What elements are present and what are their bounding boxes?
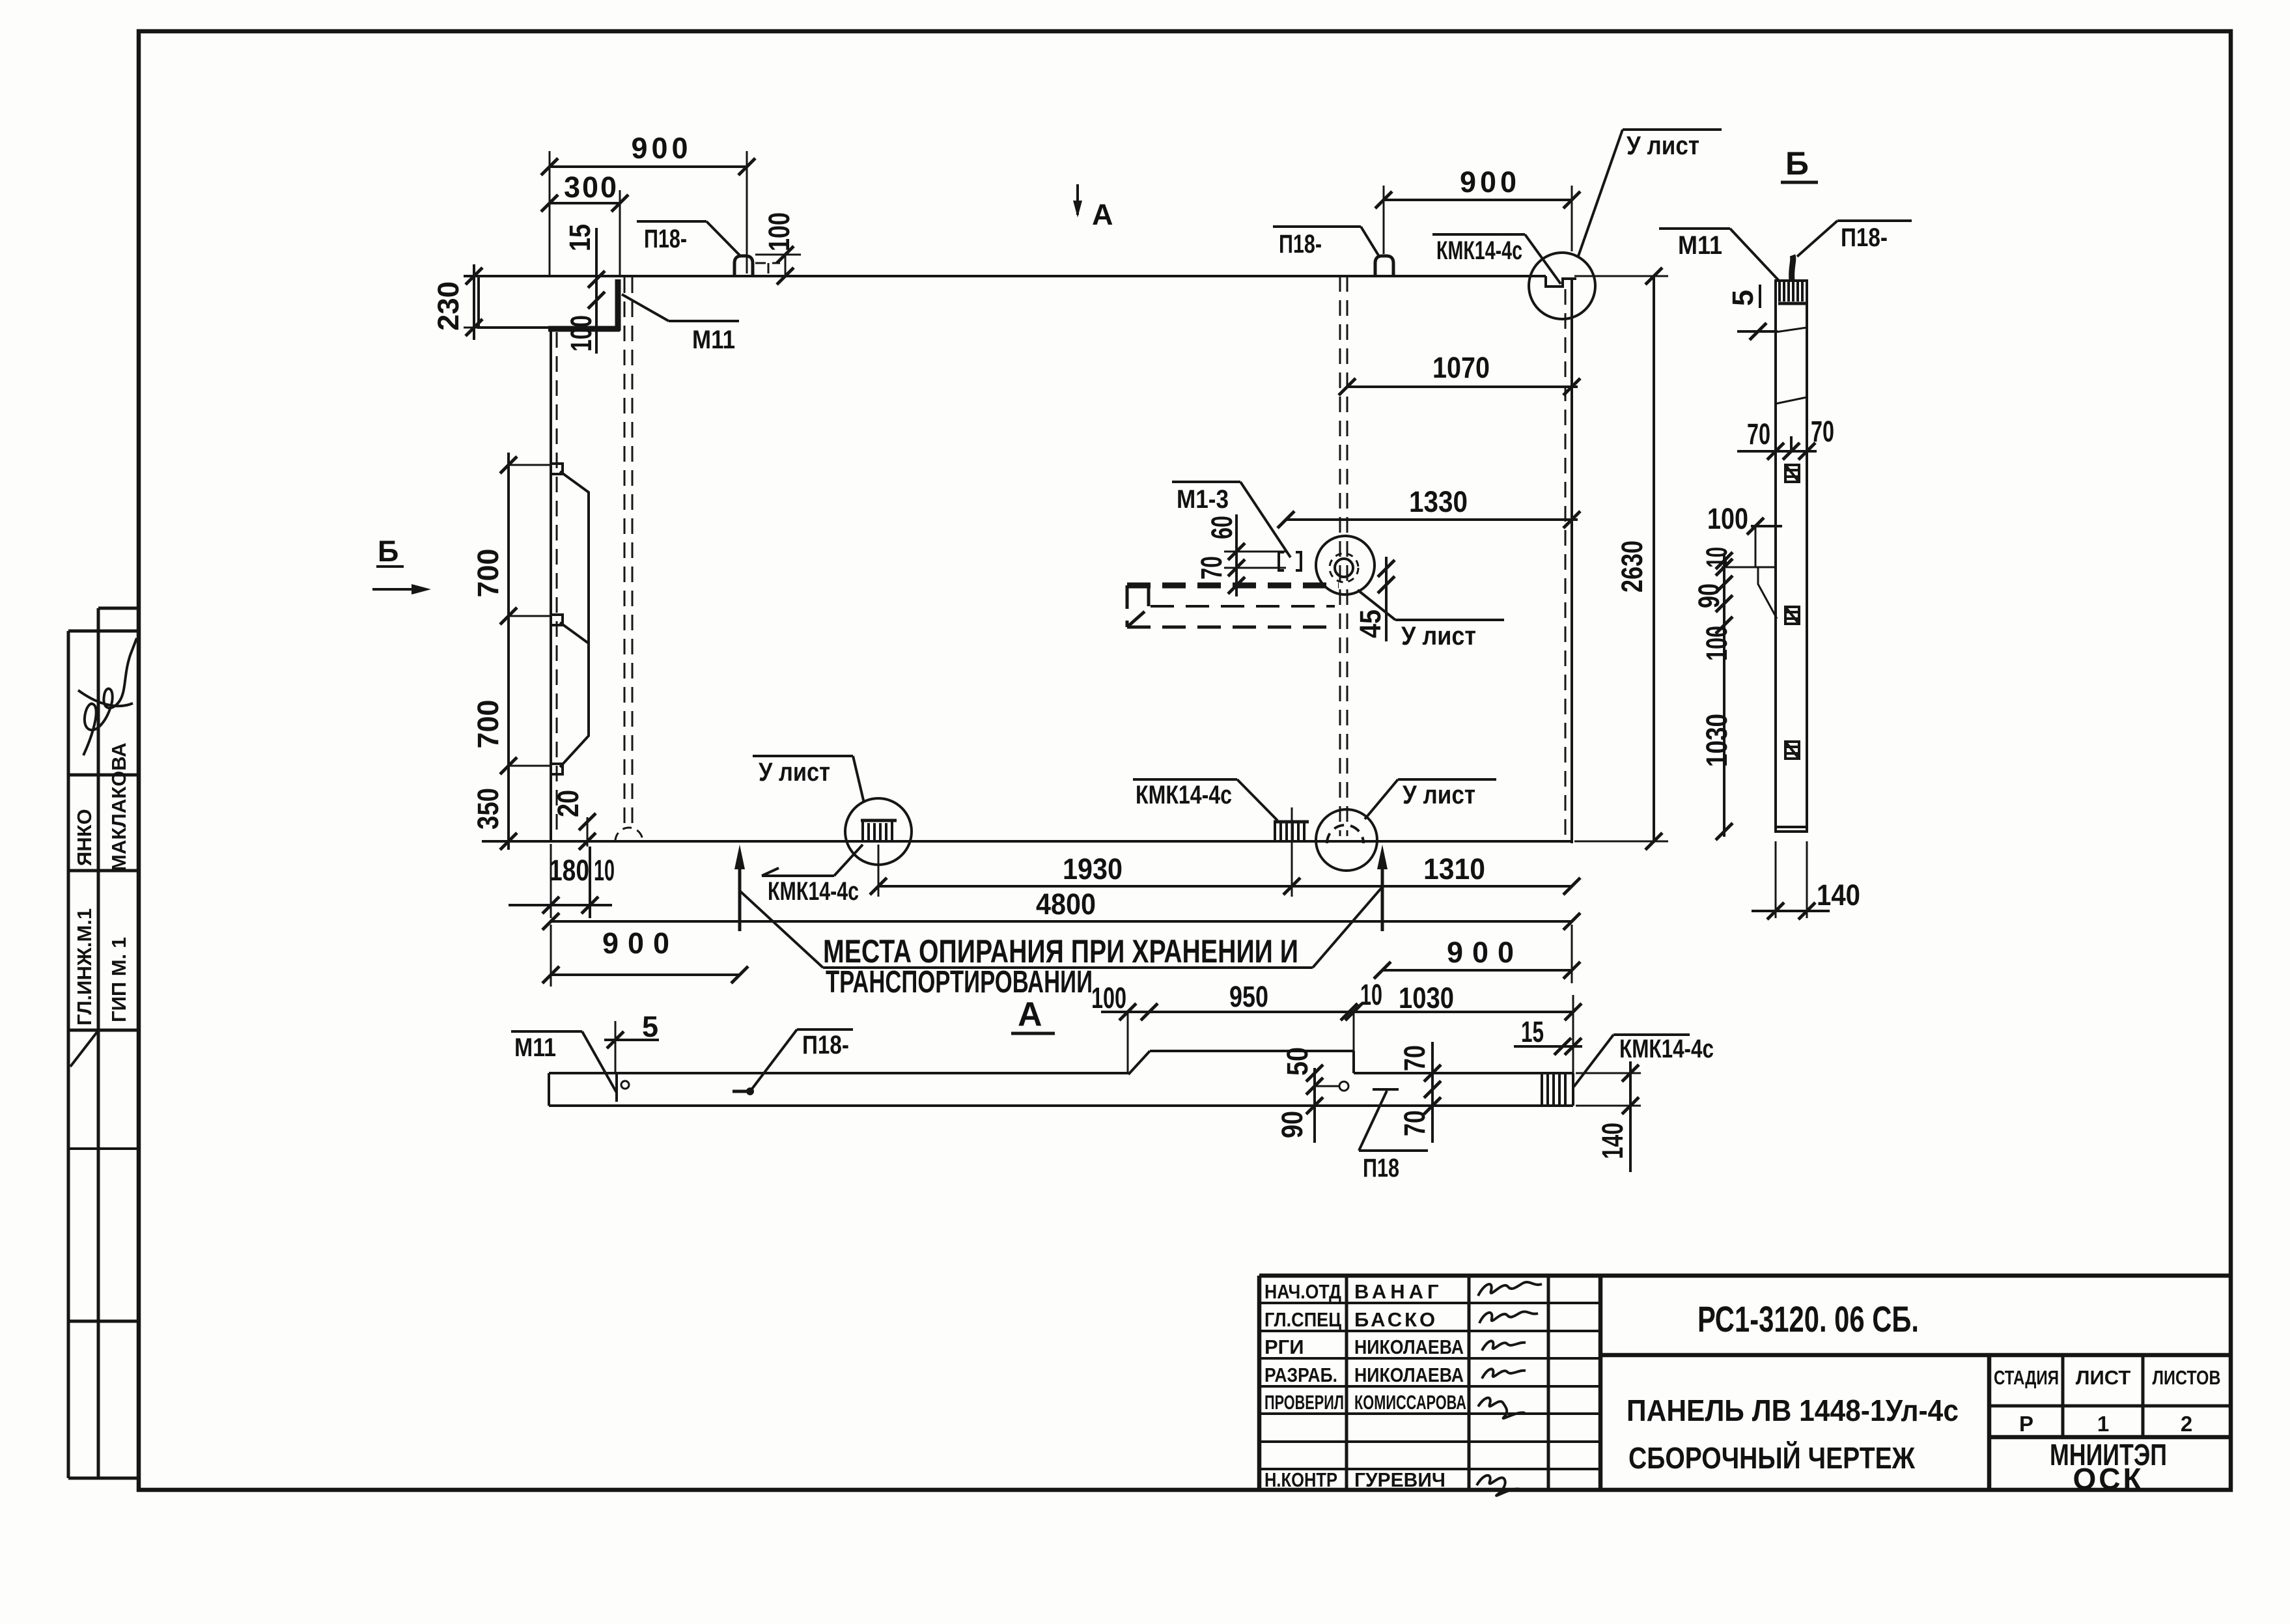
svg-text:КМК14-4с: КМК14-4с: [1436, 236, 1522, 265]
dimension 230: [432, 264, 482, 340]
svg-text:1030: 1030: [1399, 981, 1454, 1015]
svg-text:45: 45: [1354, 609, 1387, 638]
callout У лист mid: [1358, 590, 1504, 651]
svg-text:4800: 4800: [1036, 888, 1096, 921]
section Б callout М11: [1659, 229, 1780, 281]
svg-text:15: 15: [563, 224, 596, 251]
svg-text:10: 10: [1360, 978, 1382, 1011]
central vertical hidden pair lower: [1339, 276, 1341, 836]
section Б rebar mark 3: [1785, 742, 1799, 759]
svg-text:М1-3: М1-3: [1177, 485, 1229, 514]
svg-text:100: 100: [1700, 626, 1733, 661]
svg-text:ОСК: ОСК: [2073, 1462, 2143, 1496]
dimension 300: [541, 171, 628, 276]
svg-text:ГИП М. 1: ГИП М. 1: [107, 937, 130, 1022]
callout П18- top-left: [637, 221, 740, 256]
callout М11 top-left: [622, 294, 739, 354]
top right detail circle: [1529, 253, 1595, 319]
svg-text:М11: М11: [514, 1033, 556, 1062]
svg-text:ВАНАГ: ВАНАГ: [1354, 1280, 1443, 1303]
КМК hatched plate in bottom-left circle: [861, 820, 897, 841]
svg-text:90: 90: [1692, 583, 1725, 608]
section A dimension 140: [1576, 1061, 1641, 1172]
svg-text:900: 900: [602, 927, 678, 960]
detail circle М1-3: [1316, 536, 1375, 595]
top-left protrusion: [479, 276, 550, 328]
section Б joint lines: [1776, 328, 1807, 332]
svg-text:1030: 1030: [1700, 714, 1733, 767]
loop hidden dashes: [755, 262, 780, 264]
svg-text:М11: М11: [1678, 231, 1722, 260]
svg-text:КМК14-4с: КМК14-4с: [768, 877, 859, 906]
label Б top-right: [1781, 145, 1818, 182]
М11 plate thick edge: [615, 279, 621, 331]
svg-text:ПРОВЕРИЛ: ПРОВЕРИЛ: [1264, 1391, 1344, 1414]
svg-text:П18-: П18-: [1841, 223, 1888, 252]
svg-text:900: 900: [631, 132, 691, 165]
svg-text:МАКЛАКОВА: МАКЛАКОВА: [107, 742, 130, 871]
section Б chain line: [1692, 547, 1776, 840]
section Б dimension 70 70: [1737, 415, 1834, 460]
svg-text:1070: 1070: [1432, 351, 1490, 384]
dimension 70 mid: [1195, 556, 1245, 594]
dimension 180 10: [509, 844, 615, 918]
svg-text:900: 900: [1460, 165, 1520, 199]
svg-text:У лист: У лист: [1401, 622, 1476, 651]
svg-text:ГУРЕВИЧ: ГУРЕВИЧ: [1354, 1468, 1445, 1491]
title block signatures: [1477, 1282, 1542, 1496]
svg-text:5: 5: [642, 1010, 658, 1043]
section A dimension 70 70: [1398, 1042, 1441, 1143]
svg-text:950: 950: [1229, 980, 1268, 1013]
svg-text:У лист: У лист: [759, 758, 830, 787]
svg-text:ГЛ.СПЕЦ: ГЛ.СПЕЦ: [1264, 1308, 1341, 1331]
svg-text:10: 10: [594, 854, 615, 887]
svg-text:100: 100: [762, 212, 796, 251]
title block left grid: [1259, 1276, 1600, 1490]
callout М1-3: [1172, 482, 1291, 557]
callout П18- top-center: [1273, 227, 1378, 259]
dimension 1330: [1278, 485, 1580, 528]
svg-text:КМК14-4с: КМК14-4с: [1619, 1035, 1714, 1063]
section title А bottom: [1011, 996, 1055, 1033]
section Б rebar mark 1: [1785, 465, 1799, 482]
central hidden double line: [624, 277, 626, 826]
svg-text:П18: П18: [1363, 1154, 1399, 1183]
svg-text:230: 230: [432, 281, 465, 331]
svg-text:РАЗРАБ.: РАЗРАБ.: [1264, 1364, 1337, 1386]
КМК hatched plate mid-bottom: [1274, 822, 1309, 841]
note МЕСТА ОПИРАНИЯ leader right: [1313, 887, 1382, 968]
svg-text:П18-: П18-: [644, 225, 687, 253]
svg-text:НИКОЛАЕВА: НИКОЛАЕВА: [1354, 1364, 1464, 1386]
svg-text:ГЛ.ИНЖ.М.1: ГЛ.ИНЖ.М.1: [73, 908, 96, 1026]
support arrow right: [1377, 845, 1388, 931]
section A П18 target dash: [1373, 1088, 1399, 1091]
U loop dashed semicircle bottom-right: [1327, 825, 1363, 843]
svg-text:700: 700: [471, 548, 505, 597]
section Б dimension 100 upper: [1707, 502, 1782, 567]
svg-text:У лист: У лист: [1627, 132, 1699, 160]
svg-text:900: 900: [1447, 936, 1523, 969]
svg-text:90: 90: [1276, 1111, 1309, 1138]
hole in detail: [1335, 559, 1353, 577]
bottom-left U loop (dashed semicircle): [615, 828, 643, 841]
section Б column outline: [1776, 281, 1807, 832]
section A dimension 5: [604, 1010, 659, 1073]
svg-text:2: 2: [2181, 1412, 2192, 1436]
section A callout КМК14-4с: [1574, 1035, 1714, 1087]
title block names: [1354, 1280, 1466, 1491]
svg-text:Р: Р: [2019, 1412, 2033, 1436]
svg-text:П18-: П18-: [1279, 230, 1322, 259]
section A callout П18: [1359, 1091, 1428, 1183]
svg-text:П18-: П18-: [802, 1031, 849, 1059]
section A right hatched plate КМК: [1542, 1074, 1565, 1106]
svg-text:1: 1: [2097, 1412, 2109, 1436]
dimension 1930 1310: [870, 807, 1580, 897]
dimension 1070: [1339, 351, 1580, 395]
left margin stamp table: [68, 608, 139, 1478]
section Б chamfer detail: [1758, 567, 1777, 619]
svg-text:100: 100: [1707, 502, 1748, 535]
svg-text:ЛИСТ: ЛИСТ: [2076, 1366, 2131, 1389]
callout КМК14-4с mid-bottom: [1133, 779, 1278, 820]
svg-text:Б: Б: [378, 535, 398, 568]
section mark А top: [1073, 184, 1113, 231]
svg-text:140: 140: [1817, 878, 1860, 912]
svg-text:300: 300: [564, 171, 619, 204]
title block outer: [1259, 1276, 2231, 1490]
lifting loop П18 top-left: [734, 256, 753, 276]
svg-text:НАЧ.ОТД: НАЧ.ОТД: [1264, 1280, 1341, 1303]
svg-text:140: 140: [1596, 1123, 1629, 1159]
svg-text:60: 60: [1205, 516, 1238, 539]
svg-text:700: 700: [471, 699, 505, 748]
svg-text:70: 70: [1811, 415, 1834, 448]
note underline: [823, 966, 1313, 969]
dimension 2630: [1574, 268, 1668, 850]
section mark Б left: [372, 535, 431, 595]
svg-text:М11: М11: [692, 326, 735, 354]
svg-text:100: 100: [1091, 981, 1126, 1015]
section A М11 plate left: [617, 1073, 629, 1102]
protrusion plate thick edge: [548, 326, 620, 332]
svg-text:БАСКО: БАСКО: [1354, 1308, 1438, 1331]
section Б dimension 140: [1752, 841, 1860, 919]
callout У лист bottom-right: [1365, 779, 1496, 819]
left anchor rod polyline: [560, 471, 589, 767]
svg-text:СТАДИЯ: СТАДИЯ: [1994, 1366, 2059, 1389]
М1-3 plate: [1279, 552, 1301, 570]
svg-text:70: 70: [1747, 417, 1770, 451]
panel right hidden line: [1565, 289, 1567, 837]
panel top edge: [464, 275, 1546, 277]
svg-text:15: 15: [1521, 1015, 1544, 1048]
svg-text:Б: Б: [1785, 145, 1809, 182]
section Б dimension 5: [1726, 285, 1778, 340]
svg-text:У лист: У лист: [1403, 781, 1475, 809]
title СТАДИЯ ЛИСТ ЛИСТОВ: [1994, 1366, 2221, 1436]
svg-text:СБОРОЧНЫЙ ЧЕРТЕЖ: СБОРОЧНЫЙ ЧЕРТЕЖ: [1628, 1441, 1915, 1475]
section Б top hatch КМК plate: [1778, 281, 1806, 303]
svg-text:А: А: [1092, 198, 1113, 231]
dashed channel bar (hidden): [1127, 585, 1339, 627]
dimension 100 left: [565, 315, 598, 352]
svg-text:Н.КОНТР: Н.КОНТР: [1264, 1468, 1337, 1491]
svg-text:ЯНКО: ЯНКО: [73, 809, 96, 866]
section A callout П18-: [733, 1029, 853, 1095]
bottom left detail circle: [845, 798, 912, 865]
note МЕСТА ОПИРАНИЯ leader left: [740, 891, 823, 968]
svg-text:КОМИССАРОВА: КОМИССАРОВА: [1354, 1391, 1466, 1414]
svg-text:РГИ: РГИ: [1264, 1336, 1304, 1358]
title block row labels: [1264, 1280, 1344, 1491]
callout КМК14-4с bottom-left: [762, 845, 863, 906]
svg-text:ПАНЕЛЬ ЛВ 1448-1Ул-4с: ПАНЕЛЬ ЛВ 1448-1Ул-4с: [1627, 1393, 1959, 1427]
svg-text:100: 100: [565, 315, 598, 352]
dimension 60: [1205, 514, 1286, 596]
section Б М11 pigtail: [1792, 255, 1793, 281]
dimension 900 top-right: [1375, 165, 1580, 254]
svg-text:5: 5: [1726, 290, 1759, 306]
support arrow left: [734, 845, 745, 931]
section A dimension 15: [1514, 1015, 1582, 1055]
svg-text:180: 180: [549, 854, 589, 887]
dimension 15 top-left: [563, 224, 605, 354]
section A dimension row 100 950 10 1030: [1091, 978, 1582, 1073]
svg-text:ТРАНСПОРТИРОВАНИИ: ТРАНСПОРТИРОВАНИИ: [826, 965, 1093, 1000]
svg-text:10: 10: [1700, 547, 1733, 568]
svg-text:70: 70: [1398, 1045, 1431, 1071]
dimension 100 at loop: [755, 212, 801, 285]
callout У лист bottom-left: [753, 756, 864, 803]
dimension 45: [1354, 557, 1395, 641]
svg-text:МЕСТА ОПИРАНИЯ ПРИ ХРАНЕНИИ: МЕСТА ОПИРАНИЯ ПРИ ХРАНЕНИИ И: [823, 933, 1298, 970]
svg-text:1930: 1930: [1063, 852, 1123, 886]
section A strip outline: [549, 1051, 1573, 1106]
svg-text:350: 350: [471, 788, 505, 830]
svg-text:1330: 1330: [1409, 485, 1468, 518]
section Б rebar mark 2: [1785, 607, 1799, 624]
svg-text:КМК14-4с: КМК14-4с: [1136, 781, 1232, 809]
svg-text:ЛИСТОВ: ЛИСТОВ: [2153, 1366, 2221, 1389]
lifting loop П18 top-right: [1375, 256, 1393, 276]
dimension 4800: [542, 888, 1580, 930]
dimension 700 700 350 left: [471, 453, 552, 850]
svg-text:РС1-3120. 06 СБ.: РС1-3120. 06 СБ.: [1697, 1298, 1919, 1339]
panel left hidden line: [556, 332, 558, 837]
stamp signature: [78, 638, 137, 755]
svg-text:70: 70: [1195, 556, 1228, 580]
panel right edge: [1571, 279, 1573, 843]
left anchor squares on edge: [551, 464, 563, 474]
svg-text:1310: 1310: [1423, 852, 1485, 886]
svg-text:70: 70: [1398, 1110, 1431, 1136]
svg-text:НИКОЛАЕВА: НИКОЛАЕВА: [1354, 1336, 1464, 1358]
section A step detail 50 90: [1276, 1047, 1348, 1143]
svg-text:А: А: [1018, 996, 1042, 1033]
dimension 900 bottom-right: [1374, 925, 1580, 983]
callout У лист top-right: [1578, 130, 1722, 258]
section A callout М11: [511, 1031, 617, 1093]
section Б callout П18-: [1797, 221, 1912, 257]
panel top right notch: [1546, 276, 1576, 287]
callout КМК14-4с top: [1432, 234, 1561, 284]
bottom right detail circle: [1316, 809, 1377, 871]
svg-text:50: 50: [1281, 1047, 1314, 1076]
dimension 900 top-left: [541, 132, 755, 276]
svg-text:2630: 2630: [1615, 540, 1649, 593]
dimension 20: [552, 790, 596, 850]
panel left edge: [550, 328, 552, 841]
dimension 900 bottom-left: [542, 925, 748, 987]
svg-text:20: 20: [552, 790, 585, 817]
panel bottom edge: [482, 840, 1572, 843]
